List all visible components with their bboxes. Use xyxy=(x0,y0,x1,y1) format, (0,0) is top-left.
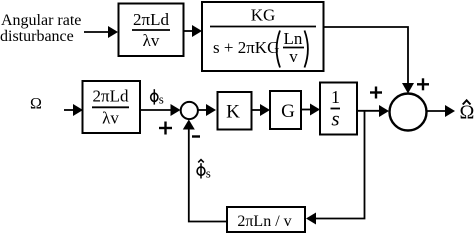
svg-text:1: 1 xyxy=(331,87,340,107)
svg-text:G: G xyxy=(281,101,295,122)
svg-text:s: s xyxy=(331,107,339,131)
svg-text:K: K xyxy=(226,102,240,123)
svg-text:λv: λv xyxy=(102,109,119,128)
svg-text:2πLn / v: 2πLn / v xyxy=(237,213,291,230)
svg-text:s + 2πKG: s + 2πKG xyxy=(213,38,279,57)
svg-text:KG: KG xyxy=(251,6,276,25)
svg-text:Angular rate: Angular rate xyxy=(1,12,81,29)
svg-text:Ln: Ln xyxy=(284,29,303,48)
svg-text:λv: λv xyxy=(143,31,160,50)
svg-text:s: s xyxy=(206,166,211,181)
svg-text:Ω: Ω xyxy=(30,96,42,113)
svg-text:s: s xyxy=(159,92,164,107)
svg-text:2πLd: 2πLd xyxy=(93,87,129,106)
svg-text:disturbance: disturbance xyxy=(0,28,74,45)
svg-text:2πLd: 2πLd xyxy=(133,10,169,29)
svg-text:Ω: Ω xyxy=(460,101,474,123)
svg-text:v: v xyxy=(289,47,298,66)
